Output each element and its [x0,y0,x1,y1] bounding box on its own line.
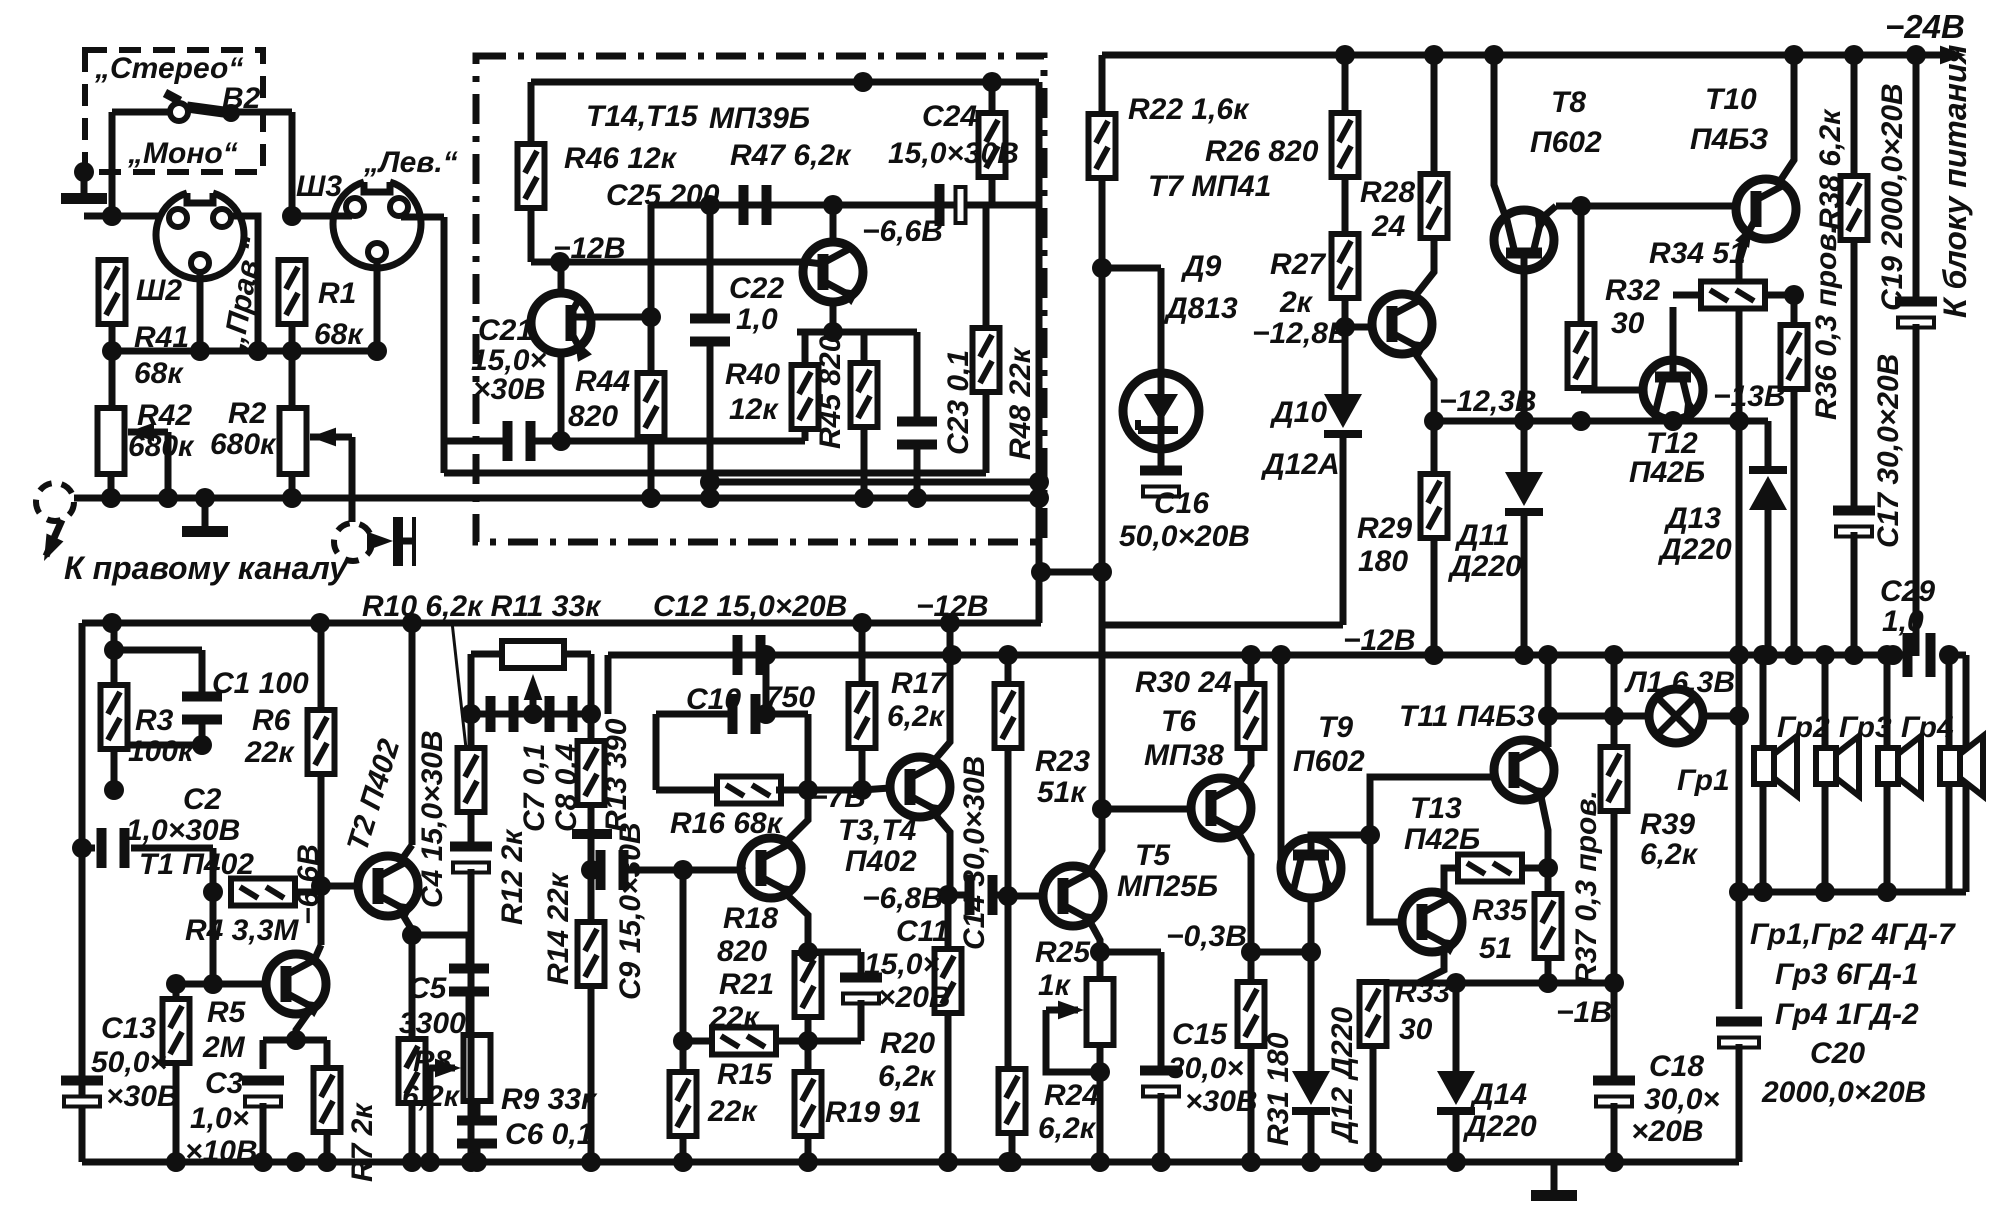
svg-text:С20: С20 [1810,1037,1865,1070]
svg-text:К правому каналу: К правому каналу [64,550,349,586]
wire [588,803,595,829]
svg-text:R28: R28 [1360,176,1415,209]
svg-text:−12,3В: −12,3В [1439,385,1537,418]
wire [564,651,591,658]
wire [653,714,660,790]
svg-text:R21: R21 [719,968,774,1001]
speaker Gr2 [1816,736,1859,796]
wire -24V top bus [1102,52,1956,59]
wire T1 emitter [296,1006,313,1040]
svg-text:−24В: −24В [1885,8,1965,45]
wire [914,445,921,498]
node [1090,1062,1110,1082]
node [1360,825,1380,845]
svg-text:R23: R23 [1035,745,1090,778]
wire output column [1736,656,1743,892]
svg-text:С12 15,0×20В: С12 15,0×20В [653,590,847,623]
junction [1301,1152,1321,1172]
svg-text:50,0×: 50,0× [91,1046,167,1079]
wire T8 emitter [1542,206,1556,218]
transistor T3 [890,757,950,820]
wire T1 base [176,981,266,988]
wire [289,324,296,414]
node [104,780,124,800]
svg-text:С4 15,0×30В: С4 15,0×30В [416,730,449,908]
svg-text:R16 68к: R16 68к [670,807,784,840]
node [367,341,387,361]
resistor R12 [458,748,485,812]
wire R16 row [656,787,723,794]
wire R6 column [318,623,325,711]
svg-text:Д12 Д220: Д12 Д220 [1326,1007,1359,1145]
wire D13 column [1765,421,1772,473]
leader line [452,622,466,748]
resistor R23 [995,684,1022,748]
svg-text:R4 3,3М: R4 3,3М [185,914,299,947]
node [166,974,186,994]
junction [1877,882,1897,902]
svg-text:−6,6В: −6,6В [862,215,943,248]
junction [998,1152,1018,1172]
wire [1963,655,1970,892]
capacitor C6 [457,1116,497,1149]
wire [1764,292,1794,299]
wire speaker column 3 [1884,655,1891,748]
wire speaker column 1 [1760,655,1767,748]
wire [1005,747,1012,1071]
svg-text:−12В: −12В [916,590,989,623]
node [798,942,818,962]
wire [114,742,202,749]
svg-text:−13В: −13В [1713,380,1786,413]
svg-text:22к: 22к [244,736,295,769]
wire R37 column [1545,868,1552,897]
wire T14 collector [558,262,565,294]
wire [1940,652,1966,659]
svg-text:С7 0,1: С7 0,1 [518,744,551,832]
junction [1784,45,1804,65]
resistor R41 [99,260,126,324]
wire output line [608,652,1911,659]
junction [523,704,543,724]
capacitor C10 [728,694,761,734]
svg-text:−6,8В: −6,8В [862,882,943,915]
svg-text:Гр2: Гр2 [1777,711,1830,744]
wire R31 column [1248,952,1255,983]
wire R13 column [588,714,595,743]
junction [700,472,720,492]
capacitor C9 [596,850,629,890]
node [1729,706,1749,726]
resistor R15 [670,1072,697,1136]
svg-text:Т10: Т10 [1705,83,1757,116]
svg-text:Д13: Д13 [1663,502,1721,535]
svg-text:С9 15,0×30В: С9 15,0×30В [614,822,647,1000]
wire [109,112,116,216]
svg-text:680к: 680к [210,428,277,461]
svg-text:Т1 П402: Т1 П402 [139,848,254,881]
svg-text:П42Б: П42Б [1629,456,1705,489]
svg-text:×30В: ×30В [1185,1085,1258,1118]
capacitor C15 [1140,1066,1182,1097]
svg-text:−7В: −7В [810,781,866,814]
junction [982,72,1002,92]
svg-text:Л1 6,3В: Л1 6,3В [1624,666,1735,699]
svg-text:С21: С21 [478,314,533,347]
svg-text:22к: 22к [709,1001,760,1034]
wire C21 row [444,438,506,445]
svg-text:Гр3 6ГД-1: Гр3 6ГД-1 [1775,958,1919,991]
wire [627,867,743,874]
svg-text:R39: R39 [1640,808,1695,841]
wire [859,747,866,790]
wire [474,1101,481,1118]
wire [474,1146,481,1162]
junction [673,1152,693,1172]
node [203,882,223,902]
wire [1104,622,1343,629]
resistor R1 [279,260,306,324]
wire [1946,655,1953,748]
junction [942,645,962,665]
junction [700,195,720,215]
wire Sh1 right pin [231,216,258,351]
wire C19 column [1913,55,1920,299]
wire lamp row [1548,713,1649,720]
svg-text:С13: С13 [101,1012,156,1045]
svg-text:100к: 100к [128,735,195,768]
wire [776,787,862,794]
svg-text:×20В: ×20В [878,981,951,1014]
wire R42 bottom [108,474,115,498]
wire T9 collector column [1278,655,1285,862]
junction [1906,45,1926,65]
wire C1 column [199,650,206,694]
svg-text:R34 51: R34 51 [1649,237,1746,270]
svg-text:51: 51 [1479,932,1512,965]
node [1424,411,1444,431]
wire R39 column [1611,655,1618,748]
node [1335,317,1355,337]
wire [1453,1110,1460,1162]
wire [109,324,116,411]
wire driver column [1099,625,1106,809]
node [72,838,92,858]
wire T6 base [1102,806,1191,813]
junction [253,1152,273,1172]
capacitor C13 [61,1076,103,1107]
wire [292,213,352,220]
junction [467,1152,487,1172]
svg-text:12к: 12к [729,393,779,426]
wire [260,1103,267,1162]
wire [1673,292,1702,299]
svg-text:68к: 68к [314,318,364,351]
junction [1090,1152,1110,1172]
junction [402,1152,422,1172]
wire [1884,784,1891,892]
svg-text:С11: С11 [896,915,949,948]
node [1301,942,1321,962]
node [1784,285,1804,305]
wire [1342,176,1349,236]
svg-text:50,0×20В: 50,0×20В [1119,520,1250,553]
wire [1521,509,1528,656]
svg-text:15,0×30В: 15,0×30В [888,137,1019,170]
junction [1446,1152,1466,1172]
wire T6 collector [1238,746,1251,785]
junction [641,488,661,508]
wire [1760,784,1767,892]
junction [550,252,570,272]
wire [775,1038,808,1045]
wire node row right [1251,949,1311,956]
junction [581,1152,601,1172]
wire [401,214,444,221]
svg-text:1,0: 1,0 [1882,605,1924,638]
capacitor C16 [1140,466,1182,497]
potentiometer R42 [98,408,125,474]
svg-text:30,0×: 30,0× [1168,1052,1244,1085]
node [673,860,693,880]
junction [823,195,843,215]
wire T13 collector [1444,868,1459,898]
resistor R7 [314,1068,341,1132]
junction [461,704,481,724]
svg-text:1,0: 1,0 [736,303,778,336]
junction [282,488,302,508]
tone pot R11 [502,641,564,668]
svg-text:R44: R44 [575,365,630,398]
wire bus to right channel [74,495,1039,502]
svg-text:МП39Б: МП39Б [709,102,810,135]
wire [1009,1132,1016,1162]
wire [528,82,535,144]
capacitor C3 [242,1076,284,1107]
svg-text:R41: R41 [134,321,189,354]
resistor R26 [1332,113,1359,177]
node [282,206,302,226]
svg-text:30,0×: 30,0× [1644,1083,1720,1116]
wire input row [441,217,448,473]
zener diode D9 [1123,373,1199,449]
svg-text:С29: С29 [1880,575,1935,608]
capacitor C19 [1895,297,1937,328]
junction [940,613,960,633]
junction [581,704,601,724]
svg-text:„Лев.“: „Лев.“ [363,146,458,179]
svg-text:Гр1,Гр2 4ГД-7: Гр1,Гр2 4ГД-7 [1750,918,1956,951]
wire [858,1000,865,1041]
wire lower box link [710,479,1039,486]
wire inner bus [531,79,1039,86]
diode D10 [1324,394,1362,438]
wire [528,208,535,262]
node [581,860,601,880]
ground [182,498,228,537]
junction [854,488,874,508]
svg-text:6,2к: 6,2к [1038,1112,1097,1145]
wire [1765,509,1772,656]
junction [195,488,215,508]
wire [197,272,204,351]
junction [853,72,873,92]
junction [1815,645,1835,665]
svg-text:Гр4 1ГД-2: Гр4 1ГД-2 [1775,998,1919,1031]
svg-text:−12В: −12В [553,232,626,265]
wire T13 emitter [1418,946,1444,983]
node [1939,645,1959,665]
wire T11 emitter [1540,792,1548,868]
node [1729,882,1749,902]
svg-text:С25 200: С25 200 [606,179,720,212]
svg-text:R32: R32 [1605,274,1660,307]
svg-text:Д9: Д9 [1180,250,1222,283]
svg-text:Д10: Д10 [1269,396,1327,429]
wire [805,1017,812,1069]
svg-text:Гр1: Гр1 [1677,764,1730,797]
capacitor C1 [182,692,222,725]
resistor R33 [1360,982,1387,1046]
svg-text:R15: R15 [717,1058,773,1091]
node [203,974,223,994]
transistor T15 [803,242,863,305]
wire [444,470,986,477]
svg-text:„Стерео“: „Стерео“ [94,52,243,85]
wire [84,213,171,220]
wire T2 emitter [400,910,412,935]
wire R7 column [324,1040,331,1069]
resistor R4 [231,879,295,906]
junction [461,1152,481,1172]
wire [111,623,118,684]
wire [468,714,475,751]
resistor R31 [1238,982,1265,1046]
svg-text:68к: 68к [134,357,184,390]
svg-text:R33: R33 [1395,976,1450,1009]
wire [1611,810,1618,1079]
wire [983,205,990,328]
wire R14 column [588,870,595,923]
svg-text:П602: П602 [1530,126,1602,159]
node [1241,942,1261,962]
speaker Gr3 [1878,736,1921,796]
wire T5 emitter [1088,918,1100,952]
resistor R29 [1421,474,1448,538]
wire D14 column [1453,983,1460,1072]
wire T5 base [1008,893,1043,900]
resistor R16 [717,777,781,804]
node [402,925,422,945]
potentiometer R9 [464,1035,491,1101]
wire T9 base node [1311,835,1370,838]
wire T4 collector [783,714,808,845]
capacitor C5 [449,964,489,997]
svg-text:Д11: Д11 [1454,519,1510,552]
svg-text:С22: С22 [729,272,784,305]
node [248,341,268,361]
wire [173,1062,180,1162]
node [1663,411,1683,431]
wire R15 column [680,870,687,1069]
svg-text:С5: С5 [408,972,448,1005]
wire [989,176,996,205]
wire C15 column [1158,952,1165,1068]
svg-text:С10: С10 [686,683,741,716]
wire [588,839,595,870]
resistor R21 [712,1028,776,1055]
svg-text:С19 2000,0×20В: С19 2000,0×20В [1876,83,1909,311]
wire [805,1139,812,1162]
svg-text:R40: R40 [725,358,780,391]
wire [763,655,770,714]
wire C11 branch [808,949,861,956]
resistor R14 [578,922,605,986]
wire R38 column [1851,55,1858,179]
wire [231,109,292,116]
junction [1571,411,1591,431]
resistor R20 [935,949,962,1013]
junction [286,1152,306,1172]
node [102,341,122,361]
arrow -24V [1940,46,1966,65]
svg-text:Ш3: Ш3 [296,170,342,203]
wire T1 collector [318,773,325,945]
capacitor C4 [450,842,492,873]
wire [1099,55,1106,117]
svg-text:×30В: ×30В [106,1080,179,1113]
wire [112,109,170,116]
node [1092,799,1112,819]
svg-text:180: 180 [1358,545,1408,578]
diode D12 [1292,1071,1330,1115]
wire T2 collector lead [400,845,412,862]
junction [1029,488,1049,508]
svg-text:R25: R25 [1035,936,1091,969]
svg-text:Гр4: Гр4 [1901,711,1954,744]
wire T10 emitter [1739,233,1748,655]
wire R12 column top [468,654,475,714]
capacitor C22 [690,314,730,347]
resistor R19 [795,1072,822,1136]
resistor R22 [1089,114,1116,178]
node [102,206,122,226]
svg-text:15,0×: 15,0× [864,948,940,981]
wire [648,437,655,498]
resistor R36 [1781,325,1808,389]
wire R17 column [859,623,866,686]
junction [1151,1152,1171,1172]
svg-text:Т11 П4БЗ: Т11 П4БЗ [1399,700,1535,733]
wire R5 column [173,984,180,1000]
R42 wiper [128,423,168,498]
svg-text:МП25Б: МП25Б [1117,870,1218,903]
svg-text:30: 30 [1611,307,1645,340]
junction [938,1152,958,1172]
svg-text:1,0×30В: 1,0×30В [126,814,240,847]
junction [1335,45,1355,65]
wire T4 emitter [783,891,808,952]
wire R2 bottom [289,474,296,498]
junction [166,1152,186,1172]
node [998,886,1018,906]
wire [374,261,381,351]
wire [680,1038,687,1045]
speaker Gr4 [1940,736,1983,796]
wire C5 branch [412,932,469,939]
resistor R44 [638,373,665,437]
junction [101,488,121,508]
